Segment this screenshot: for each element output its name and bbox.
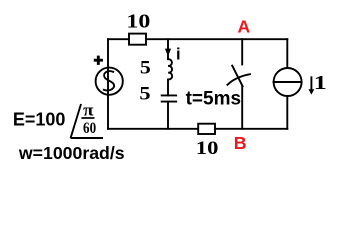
wire left vertical lower bbox=[107, 96, 109, 129]
wire between inductor and capacitor bbox=[167, 80, 169, 96]
wire middle branch upper with current arrow bbox=[167, 39, 169, 50]
switch blade bbox=[232, 66, 242, 87]
svg-text:π: π bbox=[83, 100, 94, 119]
svg-text:w=1000rad/s: w=1000rad/s bbox=[18, 143, 125, 163]
inductor L (5) coil bbox=[168, 59, 172, 79]
switch arc bbox=[227, 74, 250, 85]
capacitor C (5) top plate bbox=[162, 94, 177, 96]
wire switch branch lower bbox=[241, 86, 243, 129]
voltage source sine squiggle bbox=[104, 71, 114, 90]
wire bottom segment left bbox=[108, 128, 197, 130]
wire right vertical upper bbox=[286, 39, 288, 68]
resistor R1 (10 ohm, top) bbox=[129, 34, 146, 45]
wire bottom segment right bbox=[216, 128, 288, 130]
svg-text:t=5ms: t=5ms bbox=[186, 89, 241, 110]
fraction bar pi/60 bbox=[81, 117, 94, 119]
capacitor C bottom plate bbox=[162, 101, 177, 103]
svg-text:1: 1 bbox=[314, 72, 327, 94]
wire switch branch upper bbox=[241, 39, 243, 64]
svg-text:B: B bbox=[234, 133, 247, 153]
svg-text:10: 10 bbox=[126, 12, 150, 33]
wire top middle segment bbox=[147, 38, 287, 40]
plus sign of source E bbox=[94, 56, 103, 65]
angle symbol base line bbox=[71, 137, 103, 139]
svg-text:i: i bbox=[176, 46, 181, 64]
svg-text:5: 5 bbox=[140, 58, 151, 79]
wire left vertical upper bbox=[107, 39, 109, 95]
current source arrow head bbox=[309, 89, 315, 94]
branch current arrow head bbox=[165, 49, 171, 57]
svg-text:60: 60 bbox=[83, 120, 96, 137]
wire top-left segment bbox=[108, 38, 128, 40]
svg-text:E=100: E=100 bbox=[13, 110, 66, 130]
resistor R2 (10 ohm, bottom) bbox=[198, 124, 215, 134]
current source bar bbox=[274, 81, 302, 83]
svg-text:10: 10 bbox=[196, 138, 219, 159]
wire arrow shaft mid branch bbox=[167, 50, 169, 60]
wire capacitor to bottom bbox=[167, 102, 169, 129]
current source circle bbox=[274, 68, 302, 96]
voltage source E circle bbox=[96, 68, 123, 95]
current direction arrow (1 A) shaft bbox=[310, 77, 312, 90]
svg-text:A: A bbox=[237, 16, 250, 36]
svg-text:5: 5 bbox=[139, 84, 150, 105]
angle symbol diagonal of phasor bbox=[71, 104, 81, 138]
wire right vertical lower bbox=[286, 96, 288, 129]
